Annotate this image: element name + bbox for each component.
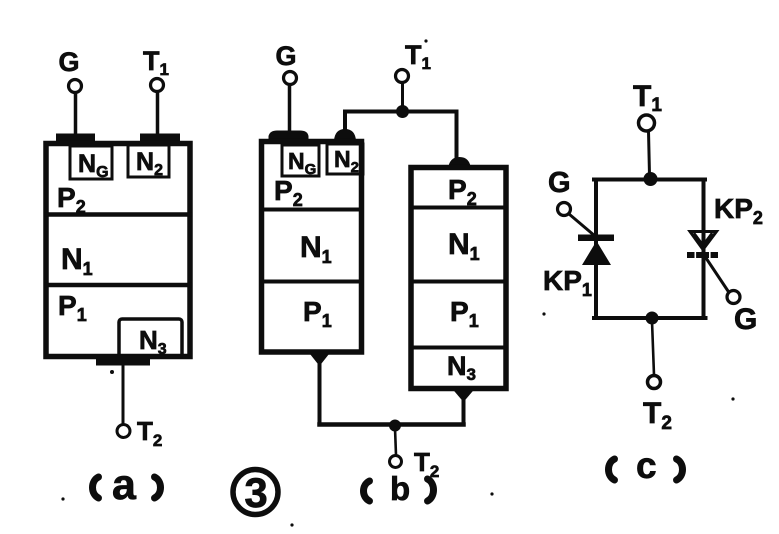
region NG box (fig b): [282, 145, 319, 176]
junction line N1/P1 (fig a): [46, 283, 190, 288]
svg-text:G: G: [275, 41, 296, 71]
svg-text:G: G: [734, 303, 757, 336]
bottom junction dot (fig c): [646, 312, 659, 325]
top wire (fig c): [594, 178, 705, 182]
gate lead KP2 (fig c): [706, 258, 728, 291]
left device body (fig b): [262, 142, 362, 353]
thyristor KP2 triangle (fig c): [690, 232, 717, 250]
junction dot T1 (fig b): [396, 105, 409, 118]
svg-text:c: c: [636, 445, 657, 486]
right device body (fig b): [411, 168, 506, 389]
right branch wire (fig c): [702, 180, 706, 319]
gate lead KP1 (fig c): [569, 214, 595, 236]
solder bump on right P2 top (fig b): [448, 157, 471, 170]
region N2 box (fig b): [327, 144, 363, 174]
wire T1 to top junction (fig c): [649, 131, 650, 175]
bottom wire (fig c): [594, 316, 706, 320]
junction line P2/N1 left (fig b): [264, 208, 359, 212]
thyristor KP1 triangle (fig c): [582, 241, 611, 265]
caption (c): [609, 445, 683, 486]
left branch wire (fig c): [594, 180, 598, 319]
caption (b): [364, 470, 434, 507]
svg-text:G: G: [548, 167, 571, 199]
wire right drop to right P2 (fig b): [455, 112, 459, 159]
region N2 box (fig a): [128, 145, 169, 177]
wire right device to bottom bus (fig b): [462, 396, 466, 425]
terminal T2 circle (fig c): [648, 376, 661, 389]
wire left device to bottom bus (fig b): [318, 360, 322, 425]
wire T1 horizontal (fig b): [345, 110, 457, 114]
wire T1 circle to junction (fig b): [401, 83, 404, 108]
gate metal contact bar (fig b): [269, 131, 309, 141]
gate metal contact bar (fig a): [56, 134, 95, 142]
caption (a): [93, 461, 161, 509]
wire junction to T2 (fig c): [652, 321, 654, 375]
gate G circle upper-left (fig c): [558, 203, 571, 216]
junction dot T2 (fig b): [389, 420, 401, 432]
terminal T1 circle (fig c): [639, 115, 655, 131]
region NG box (fig a): [70, 146, 112, 179]
bottom bus wire (fig b): [320, 422, 464, 427]
junction line P1/N3 right (fig b): [413, 346, 504, 350]
terminal G circle (fig b): [284, 72, 297, 85]
region N3 box (fig a): [119, 319, 182, 357]
junction line P2/N1 right (fig b): [413, 206, 504, 210]
svg-text:b: b: [390, 470, 410, 507]
junction line N1/P1 right (fig b): [413, 280, 504, 284]
figure number 3 circle: [233, 470, 278, 515]
thyristor KP1 cathode bar (fig c): [578, 235, 614, 242]
solder bump bottom right device (fig b): [452, 389, 475, 403]
T2 metal contact bar (fig a): [96, 357, 150, 366]
wire G to gate contact (fig a): [74, 93, 78, 135]
wire junction to T2 (fig b): [395, 428, 396, 455]
wire contact to T2 (fig a): [122, 365, 125, 424]
top junction dot (fig c): [644, 172, 658, 186]
solder bump bottom left device (fig b): [308, 352, 331, 367]
device body (fig a): [46, 144, 190, 357]
junction line P2/N1 (fig a): [46, 212, 190, 217]
solder bump on N2 (fig b): [334, 129, 356, 141]
terminal T1 circle (fig a): [151, 79, 164, 92]
svg-text:3: 3: [244, 469, 267, 516]
svg-text:a: a: [112, 461, 137, 509]
svg-text:G: G: [58, 47, 79, 77]
terminal G circle (fig a): [69, 80, 82, 93]
thyristor KP2 cathode bar (fig c): [687, 252, 718, 258]
wire left drop to N2 contact (fig b): [343, 112, 347, 133]
T1 metal contact bar (fig a): [140, 134, 180, 142]
terminal T2 circle (fig b): [390, 456, 402, 468]
scan speckles: [61, 39, 734, 526]
terminal T1 circle (fig b): [396, 70, 409, 83]
wire T1 to contact (fig a): [156, 92, 160, 135]
terminal T2 circle (fig a): [117, 425, 130, 438]
gate G circle lower-right (fig c): [727, 291, 740, 304]
wire G to gate contact (fig b): [288, 85, 292, 129]
junction line N1/P1 left (fig b): [264, 280, 359, 284]
